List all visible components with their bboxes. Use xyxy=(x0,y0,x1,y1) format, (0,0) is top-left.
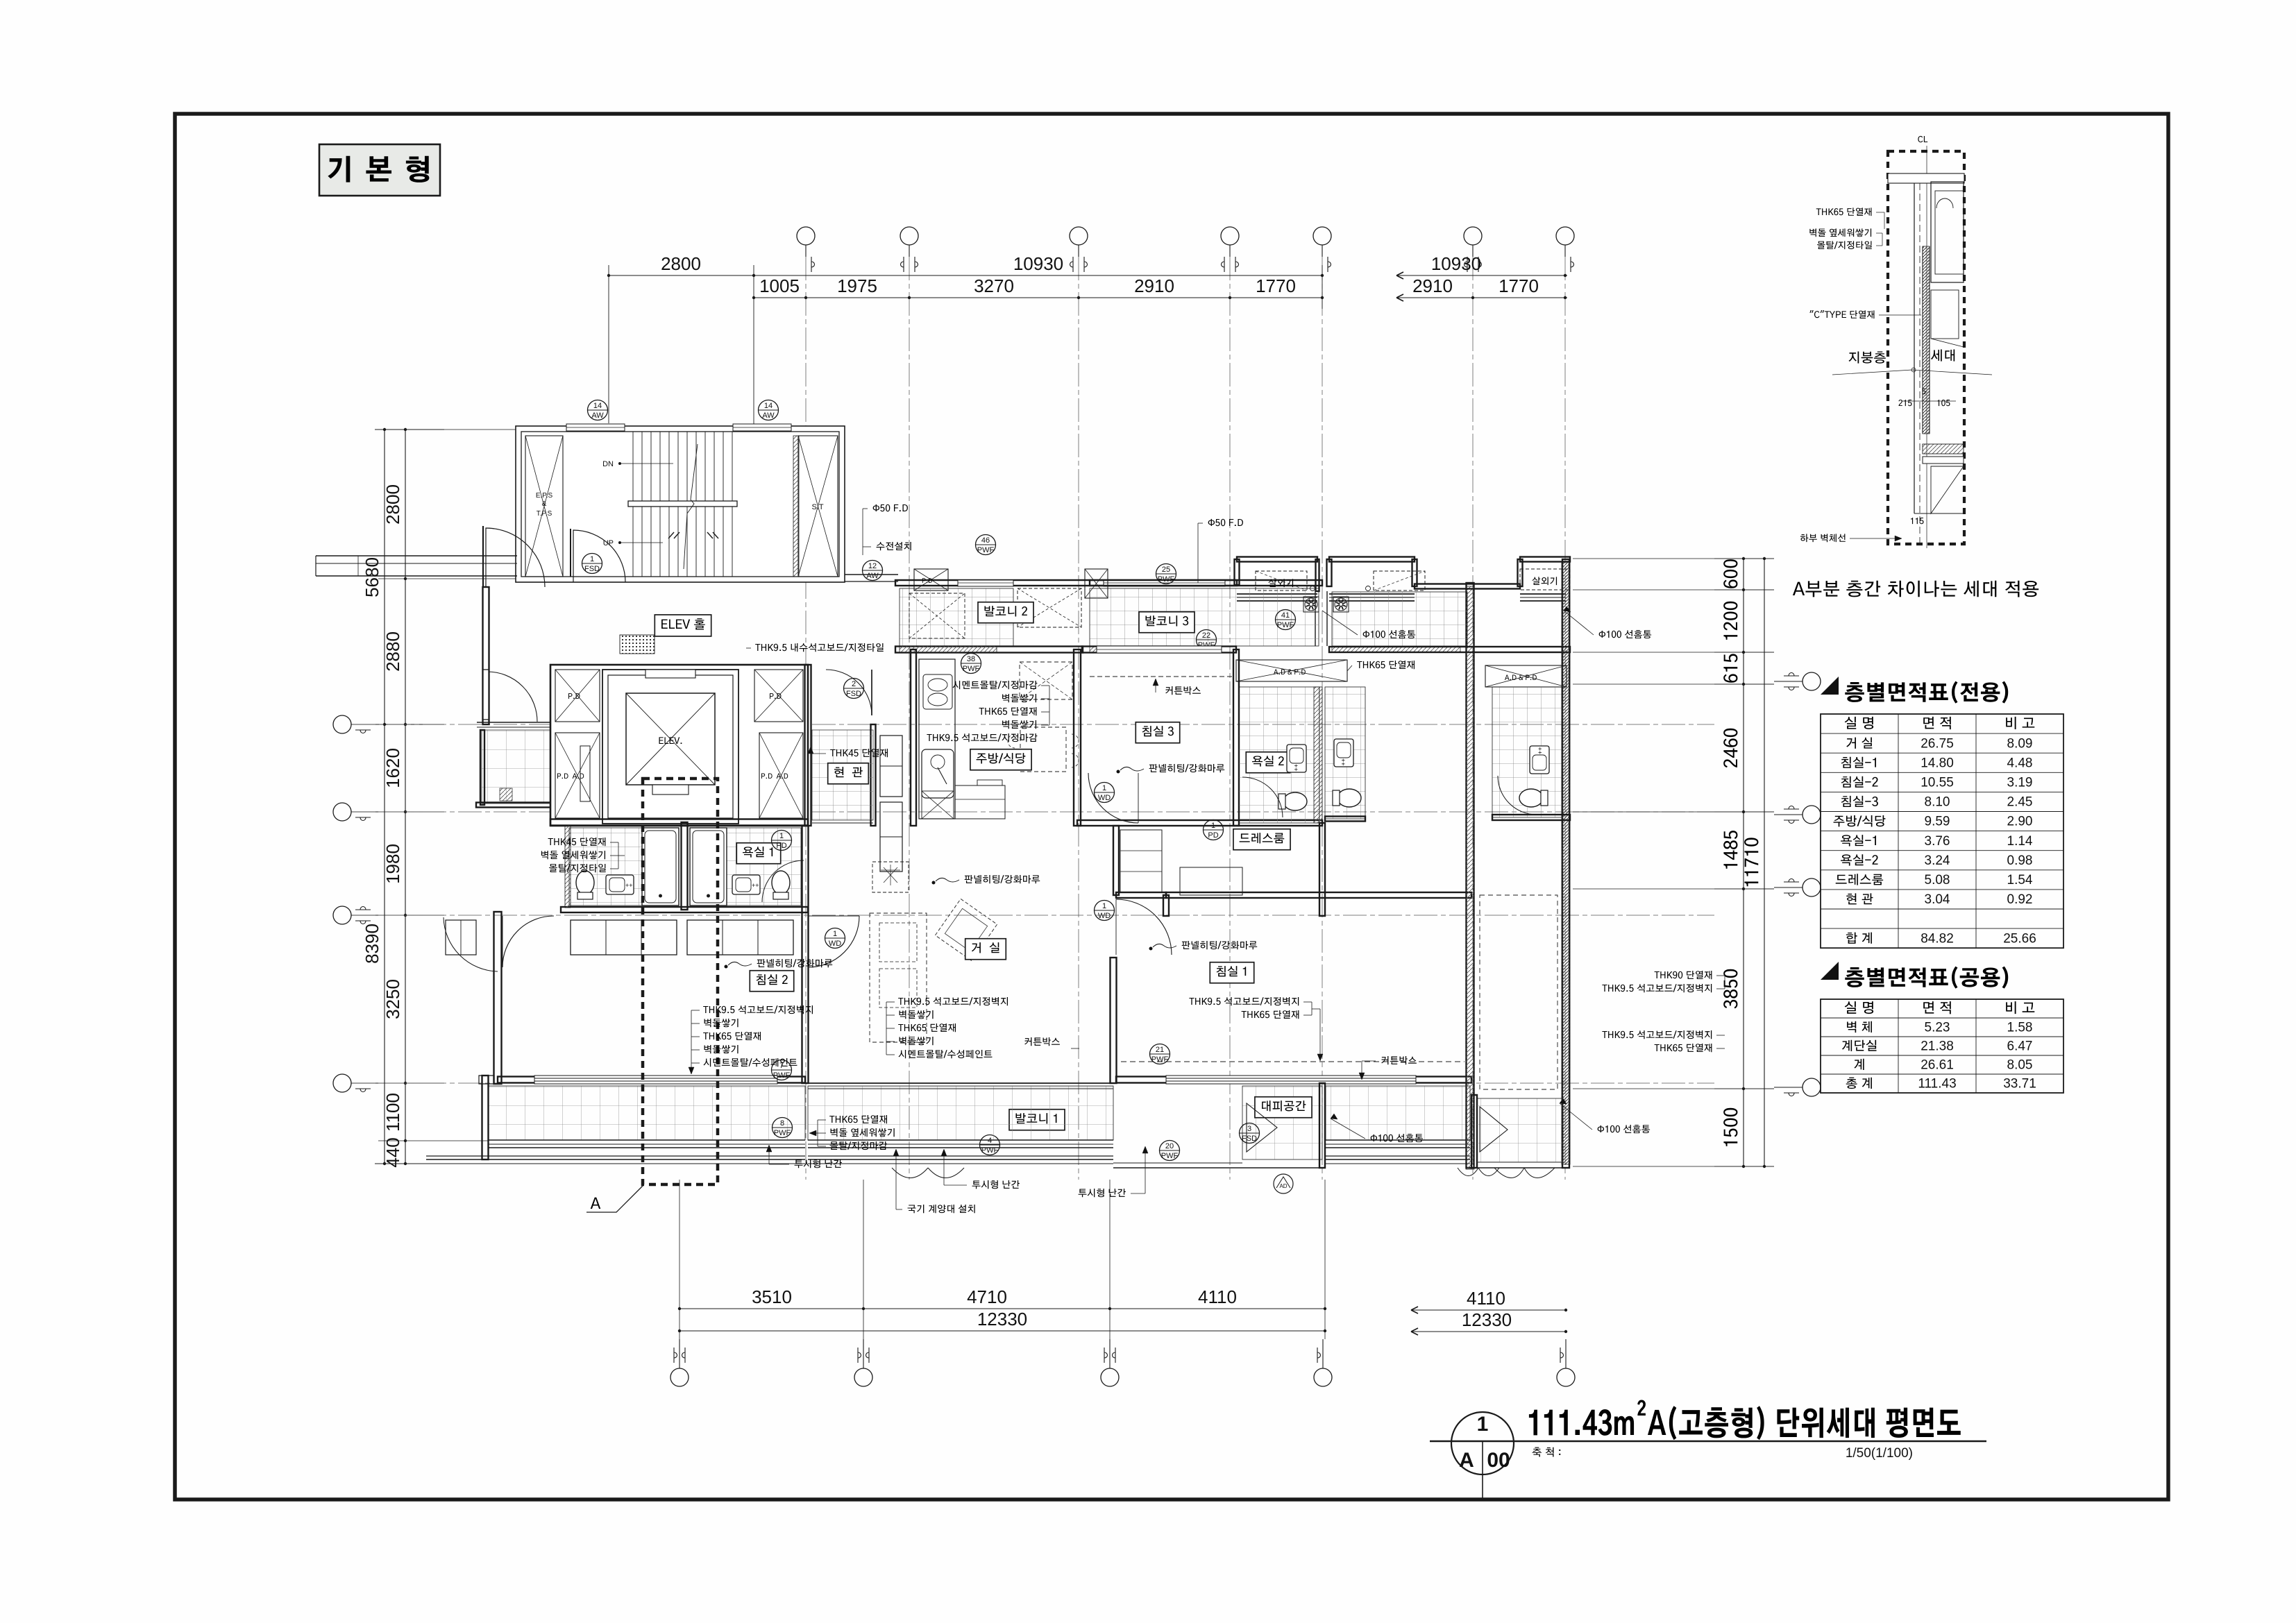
balcony2 tile xyxy=(900,588,1013,646)
svg-text:2800: 2800 xyxy=(382,484,403,525)
title circle xyxy=(1451,1412,1514,1475)
svg-text:46: 46 xyxy=(981,536,990,545)
detail lower beam xyxy=(1923,444,1964,454)
선홈통 bottom mid xyxy=(1371,1134,1424,1142)
neighbor window frames xyxy=(446,920,476,955)
svg-text:3.24: 3.24 xyxy=(1925,853,1950,868)
balcony1 callout stack xyxy=(829,1115,887,1123)
entry door FSD xyxy=(826,670,872,715)
unit top wall xyxy=(895,580,1237,586)
bubble 25/PWF xyxy=(1156,564,1176,584)
bath2 door xyxy=(1242,777,1283,817)
stair window top-left xyxy=(566,424,625,431)
door mat dots xyxy=(620,635,655,654)
실외기 box3 xyxy=(1520,569,1570,590)
stair-unit connector wall xyxy=(845,574,898,575)
AD PD box xyxy=(1236,660,1347,681)
panel heating callouts xyxy=(1149,764,1225,772)
neighbor door arc xyxy=(444,917,498,971)
svg-text:FSD: FSD xyxy=(584,565,600,573)
shoe cabinet xyxy=(880,736,902,797)
svg-text:1: 1 xyxy=(779,832,784,840)
svg-text:3.19: 3.19 xyxy=(2007,776,2033,790)
bed2 west door xyxy=(503,916,554,967)
svg-text:84.82: 84.82 xyxy=(1921,931,1954,946)
실외기 box2 xyxy=(1374,571,1425,590)
right refuge door xyxy=(1480,1107,1508,1152)
bubble 20/PWF xyxy=(1160,1141,1180,1161)
svg-text:2.45: 2.45 xyxy=(2007,795,2033,810)
svg-text:0.92: 0.92 xyxy=(2007,892,2033,907)
right refuge tile xyxy=(1477,1098,1563,1162)
bath walls hatch xyxy=(565,826,571,908)
발코니3 label xyxy=(1139,612,1195,633)
svg-text:8.10: 8.10 xyxy=(1925,795,1950,810)
detail dim 215 105 xyxy=(1898,400,1911,406)
dress corridor walls xyxy=(1113,826,1119,895)
balcony1 mid window band xyxy=(808,1139,1113,1141)
balcony2/kitchen wall xyxy=(895,647,1083,653)
bed1 insulation callouts xyxy=(1189,997,1299,1005)
detail dim 115 xyxy=(1911,518,1924,524)
entry tile xyxy=(812,730,873,820)
detail lower window xyxy=(1931,466,1964,513)
hall bottom wall xyxy=(476,803,555,808)
scale labels xyxy=(1533,1447,1561,1457)
kitchen island xyxy=(955,785,1005,819)
svg-text:1.54: 1.54 xyxy=(2007,873,2033,887)
ELEV hall label xyxy=(655,615,711,636)
refuge door triangle xyxy=(1247,1103,1277,1152)
bath2 tile xyxy=(1239,687,1319,823)
right unit right wall xyxy=(1562,559,1569,1168)
svg-text:12: 12 xyxy=(868,562,877,570)
right unit swing door bottom xyxy=(1494,1168,1524,1178)
stair block outer walls xyxy=(516,426,845,582)
title box 기본형 xyxy=(319,144,440,196)
svg-text:1770: 1770 xyxy=(1256,275,1296,296)
stair treads xyxy=(632,432,634,577)
svg-text:1: 1 xyxy=(590,555,594,563)
table title xyxy=(1821,962,1839,980)
svg-text:1.14: 1.14 xyxy=(2007,834,2033,849)
hall mat hatch xyxy=(500,788,512,801)
bed1 curtain dashes xyxy=(1121,1061,1464,1062)
svg-text:1: 1 xyxy=(1477,1413,1489,1436)
svg-text:38: 38 xyxy=(967,655,975,663)
entry step xyxy=(812,822,873,824)
wardrobe band xyxy=(571,920,677,955)
dressroom walls xyxy=(1163,895,1169,916)
right bath door xyxy=(1498,776,1537,815)
svg-text:&: & xyxy=(542,500,547,508)
section cut dashed box xyxy=(643,779,718,1184)
svg-text:00: 00 xyxy=(1487,1449,1510,1472)
bed3 door xyxy=(1088,773,1138,823)
svg-text:22: 22 xyxy=(1202,631,1210,640)
svg-text:PD: PD xyxy=(776,842,786,850)
detail fixture mid xyxy=(1931,290,1959,339)
svg-text:2910: 2910 xyxy=(1134,275,1174,296)
bubble 1/PD xyxy=(772,831,792,851)
bed1 balcony window band xyxy=(1326,1139,1470,1141)
table grid xyxy=(1821,999,2063,1093)
kitchen callout stack xyxy=(953,681,1038,689)
bubble 1/WD living xyxy=(1095,901,1115,921)
bedroom2 side walls xyxy=(802,826,809,1083)
svg-text:1005: 1005 xyxy=(759,275,800,296)
투시형난간 1 xyxy=(795,1159,842,1168)
right AD PD xyxy=(1485,665,1567,687)
detail 지붕층/세대 xyxy=(1848,351,1885,363)
svg-text:AW: AW xyxy=(866,572,879,580)
detail labels left xyxy=(1816,207,1872,216)
svg-text:1770: 1770 xyxy=(1499,275,1539,296)
욕실1 label xyxy=(736,843,780,864)
bubble 1/PD bath2 xyxy=(1204,820,1224,840)
balcony1 left jog xyxy=(479,1076,494,1084)
svg-text:4.48: 4.48 xyxy=(2007,756,2033,770)
stair landing rail xyxy=(628,501,737,507)
right balcony tile xyxy=(1332,592,1467,646)
P.D right xyxy=(754,670,803,722)
THK90 callouts right xyxy=(1655,971,1712,979)
bubble 38/PWF xyxy=(961,654,981,674)
P.D A.D left xyxy=(555,733,600,818)
left grid bubbles xyxy=(333,715,351,733)
stair arrows xyxy=(668,532,679,538)
right bath bottom wall xyxy=(1492,815,1570,820)
svg-text:3510: 3510 xyxy=(752,1286,792,1307)
bed1 door xyxy=(1116,899,1172,955)
svg-text:20: 20 xyxy=(1165,1142,1174,1150)
kitchen counter xyxy=(919,659,955,819)
S.T shaft xyxy=(798,436,838,577)
stair door xyxy=(573,530,625,582)
svg-text:2800: 2800 xyxy=(661,253,701,274)
callout F.D 1 xyxy=(873,504,908,512)
detail tub xyxy=(1931,182,1964,282)
stair window top-right xyxy=(733,424,791,431)
svg-text:1975: 1975 xyxy=(837,275,877,296)
right bath fixtures xyxy=(690,828,727,906)
svg-text:9.59: 9.59 xyxy=(1925,815,1950,829)
E.P.S T.P.S shaft xyxy=(525,436,563,577)
main title xyxy=(1529,1409,1634,1436)
svg-text:10930: 10930 xyxy=(1431,253,1481,274)
svg-text:3.04: 3.04 xyxy=(1925,892,1950,907)
svg-text:1: 1 xyxy=(1102,784,1106,792)
detail CL mark xyxy=(1918,136,1927,142)
bubble 41/PWF xyxy=(1276,610,1296,630)
callout 내수석고보드 xyxy=(755,643,884,652)
border frame xyxy=(175,114,2168,1499)
top dimension row1 xyxy=(609,275,1322,276)
washer dashed xyxy=(909,593,965,638)
대피공간 tile xyxy=(1242,1086,1322,1159)
balcony1 swing door xyxy=(892,1168,928,1178)
bottom grid bubbles xyxy=(670,1368,689,1386)
svg-text:PWF: PWF xyxy=(773,1071,791,1080)
balcony1 rail bottom xyxy=(426,1155,805,1157)
right unit top niche walls xyxy=(1327,559,1332,586)
svg-text:8: 8 xyxy=(780,1119,784,1128)
주방/식당 label xyxy=(970,749,1031,770)
svg-text:PWF: PWF xyxy=(963,665,980,673)
svg-text:12330: 12330 xyxy=(977,1309,1027,1329)
드레스룸 label xyxy=(1233,829,1290,850)
svg-text:WD: WD xyxy=(1098,912,1111,920)
svg-text:2910: 2910 xyxy=(1412,275,1453,296)
grid bubble 1/FSD xyxy=(582,554,602,574)
bubble 1/WD bed3 xyxy=(1095,783,1115,803)
callout F.D 2 xyxy=(1208,519,1243,527)
욕실2 label xyxy=(1246,752,1290,773)
bed1 right lower walls xyxy=(1319,823,1325,916)
bottom dims right unit xyxy=(1411,1309,1566,1311)
column grid bubbles top xyxy=(797,227,815,245)
dining table dashed xyxy=(1020,727,1066,772)
top dims right unit xyxy=(1396,275,1567,276)
svg-text:8.05: 8.05 xyxy=(2007,1057,2033,1072)
kitchen/bed3 wall xyxy=(1074,649,1081,826)
svg-text:26.75: 26.75 xyxy=(1921,736,1954,751)
bubble 3/FSD xyxy=(1240,1123,1260,1144)
mid bath fixtures xyxy=(1334,739,1353,767)
svg-text:++: ++ xyxy=(625,882,633,889)
right bath door xyxy=(762,860,804,902)
bottom dimensions xyxy=(679,1308,1325,1309)
svg-text:S.T: S.T xyxy=(811,503,823,511)
AD triangle bubble xyxy=(1274,1174,1293,1193)
svg-text:2.90: 2.90 xyxy=(2007,815,2033,829)
bubble 1/WD xyxy=(825,928,845,949)
svg-text:33.71: 33.71 xyxy=(2003,1076,2036,1091)
svg-text:++: ++ xyxy=(1292,764,1299,772)
bed2 west wall xyxy=(494,912,502,1084)
core slot xyxy=(580,746,590,801)
hall left wall xyxy=(483,587,489,724)
svg-text:14: 14 xyxy=(593,402,602,410)
bed3 bottom wall xyxy=(1077,820,1322,826)
svg-text:6.47: 6.47 xyxy=(2007,1039,2033,1053)
section label A xyxy=(586,1186,643,1212)
detail slab top xyxy=(1888,173,1964,183)
실외기 box1 xyxy=(1256,571,1307,590)
kitchen sink xyxy=(922,749,954,798)
대피공간 label xyxy=(1255,1097,1312,1118)
bubble 2/FSD xyxy=(844,679,864,699)
balcony3 top window xyxy=(1104,580,1225,586)
right unit room dashes xyxy=(1480,895,1558,1089)
현관 label xyxy=(828,763,869,784)
left AC niche xyxy=(1235,559,1240,585)
bubble 21/PWF xyxy=(1150,1044,1170,1064)
bubble 4/PWF xyxy=(980,1135,1000,1155)
svg-text:FSD: FSD xyxy=(1242,1135,1257,1143)
balcony2 closet xyxy=(1018,588,1081,627)
mid bath tile (right unit mirror) xyxy=(1325,687,1365,819)
svg-text:440: 440 xyxy=(382,1137,403,1167)
svg-text:5.23: 5.23 xyxy=(1925,1020,1950,1035)
living rug xyxy=(872,862,909,892)
투시형난간 2 xyxy=(972,1180,1020,1189)
balcony1 mid rail xyxy=(808,1155,1113,1157)
party wall between units xyxy=(1467,583,1474,1168)
left dimension chains xyxy=(384,430,385,1164)
svg-text:25.66: 25.66 xyxy=(2003,931,2036,946)
svg-text:A: A xyxy=(1459,1449,1474,1472)
corridor stub left of stair xyxy=(316,555,517,556)
svg-text:PWF: PWF xyxy=(1151,1055,1169,1064)
P.D box kitchen top xyxy=(914,569,948,590)
국기계양대 xyxy=(908,1205,975,1213)
svg-text:1: 1 xyxy=(833,930,837,938)
svg-text:1.58: 1.58 xyxy=(2007,1020,2033,1035)
bed1 balcony rail xyxy=(1326,1155,1470,1157)
svg-text:26.61: 26.61 xyxy=(1921,1057,1954,1072)
entry corridor walls xyxy=(805,665,811,826)
elevator door xyxy=(652,785,689,794)
right bath fixtures xyxy=(1530,746,1549,774)
bubble 22/PWF xyxy=(1197,630,1217,650)
bedroom2 east door xyxy=(808,916,859,967)
svg-text:++: ++ xyxy=(1340,758,1347,766)
callout THK65 right1 xyxy=(1357,661,1415,669)
bubble 8/PWF xyxy=(773,1118,793,1138)
svg-text:2: 2 xyxy=(852,680,856,688)
callout 수전설치 xyxy=(877,542,911,550)
svg-text:14: 14 xyxy=(764,402,773,410)
right unit balcony bottom wall xyxy=(1329,647,1570,652)
living sofa dashed xyxy=(870,913,927,1042)
발코니1 label xyxy=(1009,1110,1065,1130)
svg-text:1: 1 xyxy=(1211,822,1215,830)
detail wall hatch xyxy=(1923,246,1930,434)
svg-text:1/50(1/100): 1/50(1/100) xyxy=(1846,1446,1913,1461)
svg-text:++: ++ xyxy=(1537,747,1544,754)
caption A부분 xyxy=(1793,581,2038,597)
right grid bubbles xyxy=(1803,672,1821,690)
bath2 right wall hatch xyxy=(1314,687,1322,823)
table title xyxy=(1821,677,1839,695)
bed3 room xyxy=(1233,649,1239,826)
svg-text:AD: AD xyxy=(1279,1183,1287,1189)
left niche parapet xyxy=(1237,593,1317,595)
P.D left xyxy=(555,670,600,722)
grid bubble 14/AW b xyxy=(759,400,779,420)
right unit bottom wall xyxy=(1471,1095,1477,1168)
svg-text:1980: 1980 xyxy=(382,844,403,884)
svg-text:3.76: 3.76 xyxy=(1925,834,1950,849)
svg-text:0.98: 0.98 xyxy=(2007,853,2033,868)
bed1 balcony strip tile xyxy=(1326,1086,1470,1140)
left bath tile xyxy=(569,828,679,906)
table grid xyxy=(1821,714,2063,948)
svg-text:DN: DN xyxy=(602,460,614,468)
svg-text:PD: PD xyxy=(1208,831,1218,840)
bubble 46/PWF xyxy=(976,535,996,555)
거실 label xyxy=(965,939,1006,960)
svg-text:8390: 8390 xyxy=(362,924,382,964)
balcony1 window band left xyxy=(489,1139,805,1141)
svg-text:21: 21 xyxy=(1156,1046,1164,1054)
callout 선홈통 top1 xyxy=(1363,630,1416,638)
svg-text:111.43: 111.43 xyxy=(1918,1076,1956,1091)
living table xyxy=(935,899,997,960)
right unit top wall mid xyxy=(1415,584,1520,589)
bottom slab line mid xyxy=(1113,1162,1242,1164)
right bath tile xyxy=(690,828,801,906)
kitchen fridge dashed xyxy=(1020,662,1072,699)
svg-text:1620: 1620 xyxy=(382,748,403,788)
right dimension chains xyxy=(1743,559,1744,1166)
detail left wall line xyxy=(1914,183,1915,513)
발코니2 label xyxy=(978,602,1033,623)
balcony1 window top xyxy=(808,1082,1113,1084)
svg-text:++: ++ xyxy=(752,882,759,889)
svg-text:14.80: 14.80 xyxy=(1921,756,1954,770)
THK9.5+THK65 right lower xyxy=(1602,1030,1712,1039)
svg-text:5.08: 5.08 xyxy=(1925,873,1950,887)
grid bubble 14/AW xyxy=(588,400,608,420)
svg-text:8.09: 8.09 xyxy=(2007,736,2033,751)
balcony1 tile xyxy=(489,1086,805,1140)
svg-text:T.P.S: T.P.S xyxy=(537,510,552,518)
svg-text:3: 3 xyxy=(1247,1125,1251,1133)
svg-text:4110: 4110 xyxy=(1467,1288,1505,1309)
hall door lower xyxy=(487,672,537,722)
bed2 callout stack xyxy=(703,1005,813,1014)
svg-text:PWF: PWF xyxy=(1277,621,1294,629)
bed1 top wall xyxy=(1166,892,1471,898)
balcony3/bed3 wall window xyxy=(1082,647,1236,653)
stair break line xyxy=(684,444,698,569)
core left callout stack xyxy=(548,838,606,846)
P.D A.D right xyxy=(759,733,803,818)
kitchen stove xyxy=(923,674,952,709)
svg-text:PWF: PWF xyxy=(977,546,995,554)
bed3 curtain box xyxy=(1090,676,1232,677)
bed1 bottom window xyxy=(1116,1077,1471,1083)
left bath fixtures xyxy=(576,871,594,899)
svg-text:4710: 4710 xyxy=(967,1286,1007,1307)
svg-text:10930: 10930 xyxy=(1013,253,1063,274)
svg-text:FSD: FSD xyxy=(846,690,861,698)
hall west stub xyxy=(480,730,484,805)
svg-text:1: 1 xyxy=(1102,902,1106,910)
svg-text:WD: WD xyxy=(829,940,841,948)
hall door arc xyxy=(486,528,545,587)
living callout stack xyxy=(898,997,1008,1005)
svg-text:25: 25 xyxy=(1162,566,1170,574)
right unit bottom rail xyxy=(1474,1167,1566,1169)
refuge swing door xyxy=(1458,1168,1478,1176)
svg-text:E.P.S: E.P.S xyxy=(536,492,553,500)
mid bath bottom wall xyxy=(1325,817,1365,822)
svg-text:PWF: PWF xyxy=(774,1129,791,1137)
svg-text:3270: 3270 xyxy=(974,275,1014,296)
svg-text:2880: 2880 xyxy=(382,631,403,672)
elevator shaft xyxy=(602,670,738,824)
callout THK45 core xyxy=(830,749,888,757)
svg-text:4110: 4110 xyxy=(1198,1286,1237,1307)
balcony3 strip xyxy=(1090,580,1322,586)
bedroom2 bottom wall/window xyxy=(498,1077,805,1083)
balcony3 bottom hatch xyxy=(1090,647,1222,652)
침실3 label xyxy=(1136,722,1179,743)
bath strip bottom wall xyxy=(561,907,808,912)
